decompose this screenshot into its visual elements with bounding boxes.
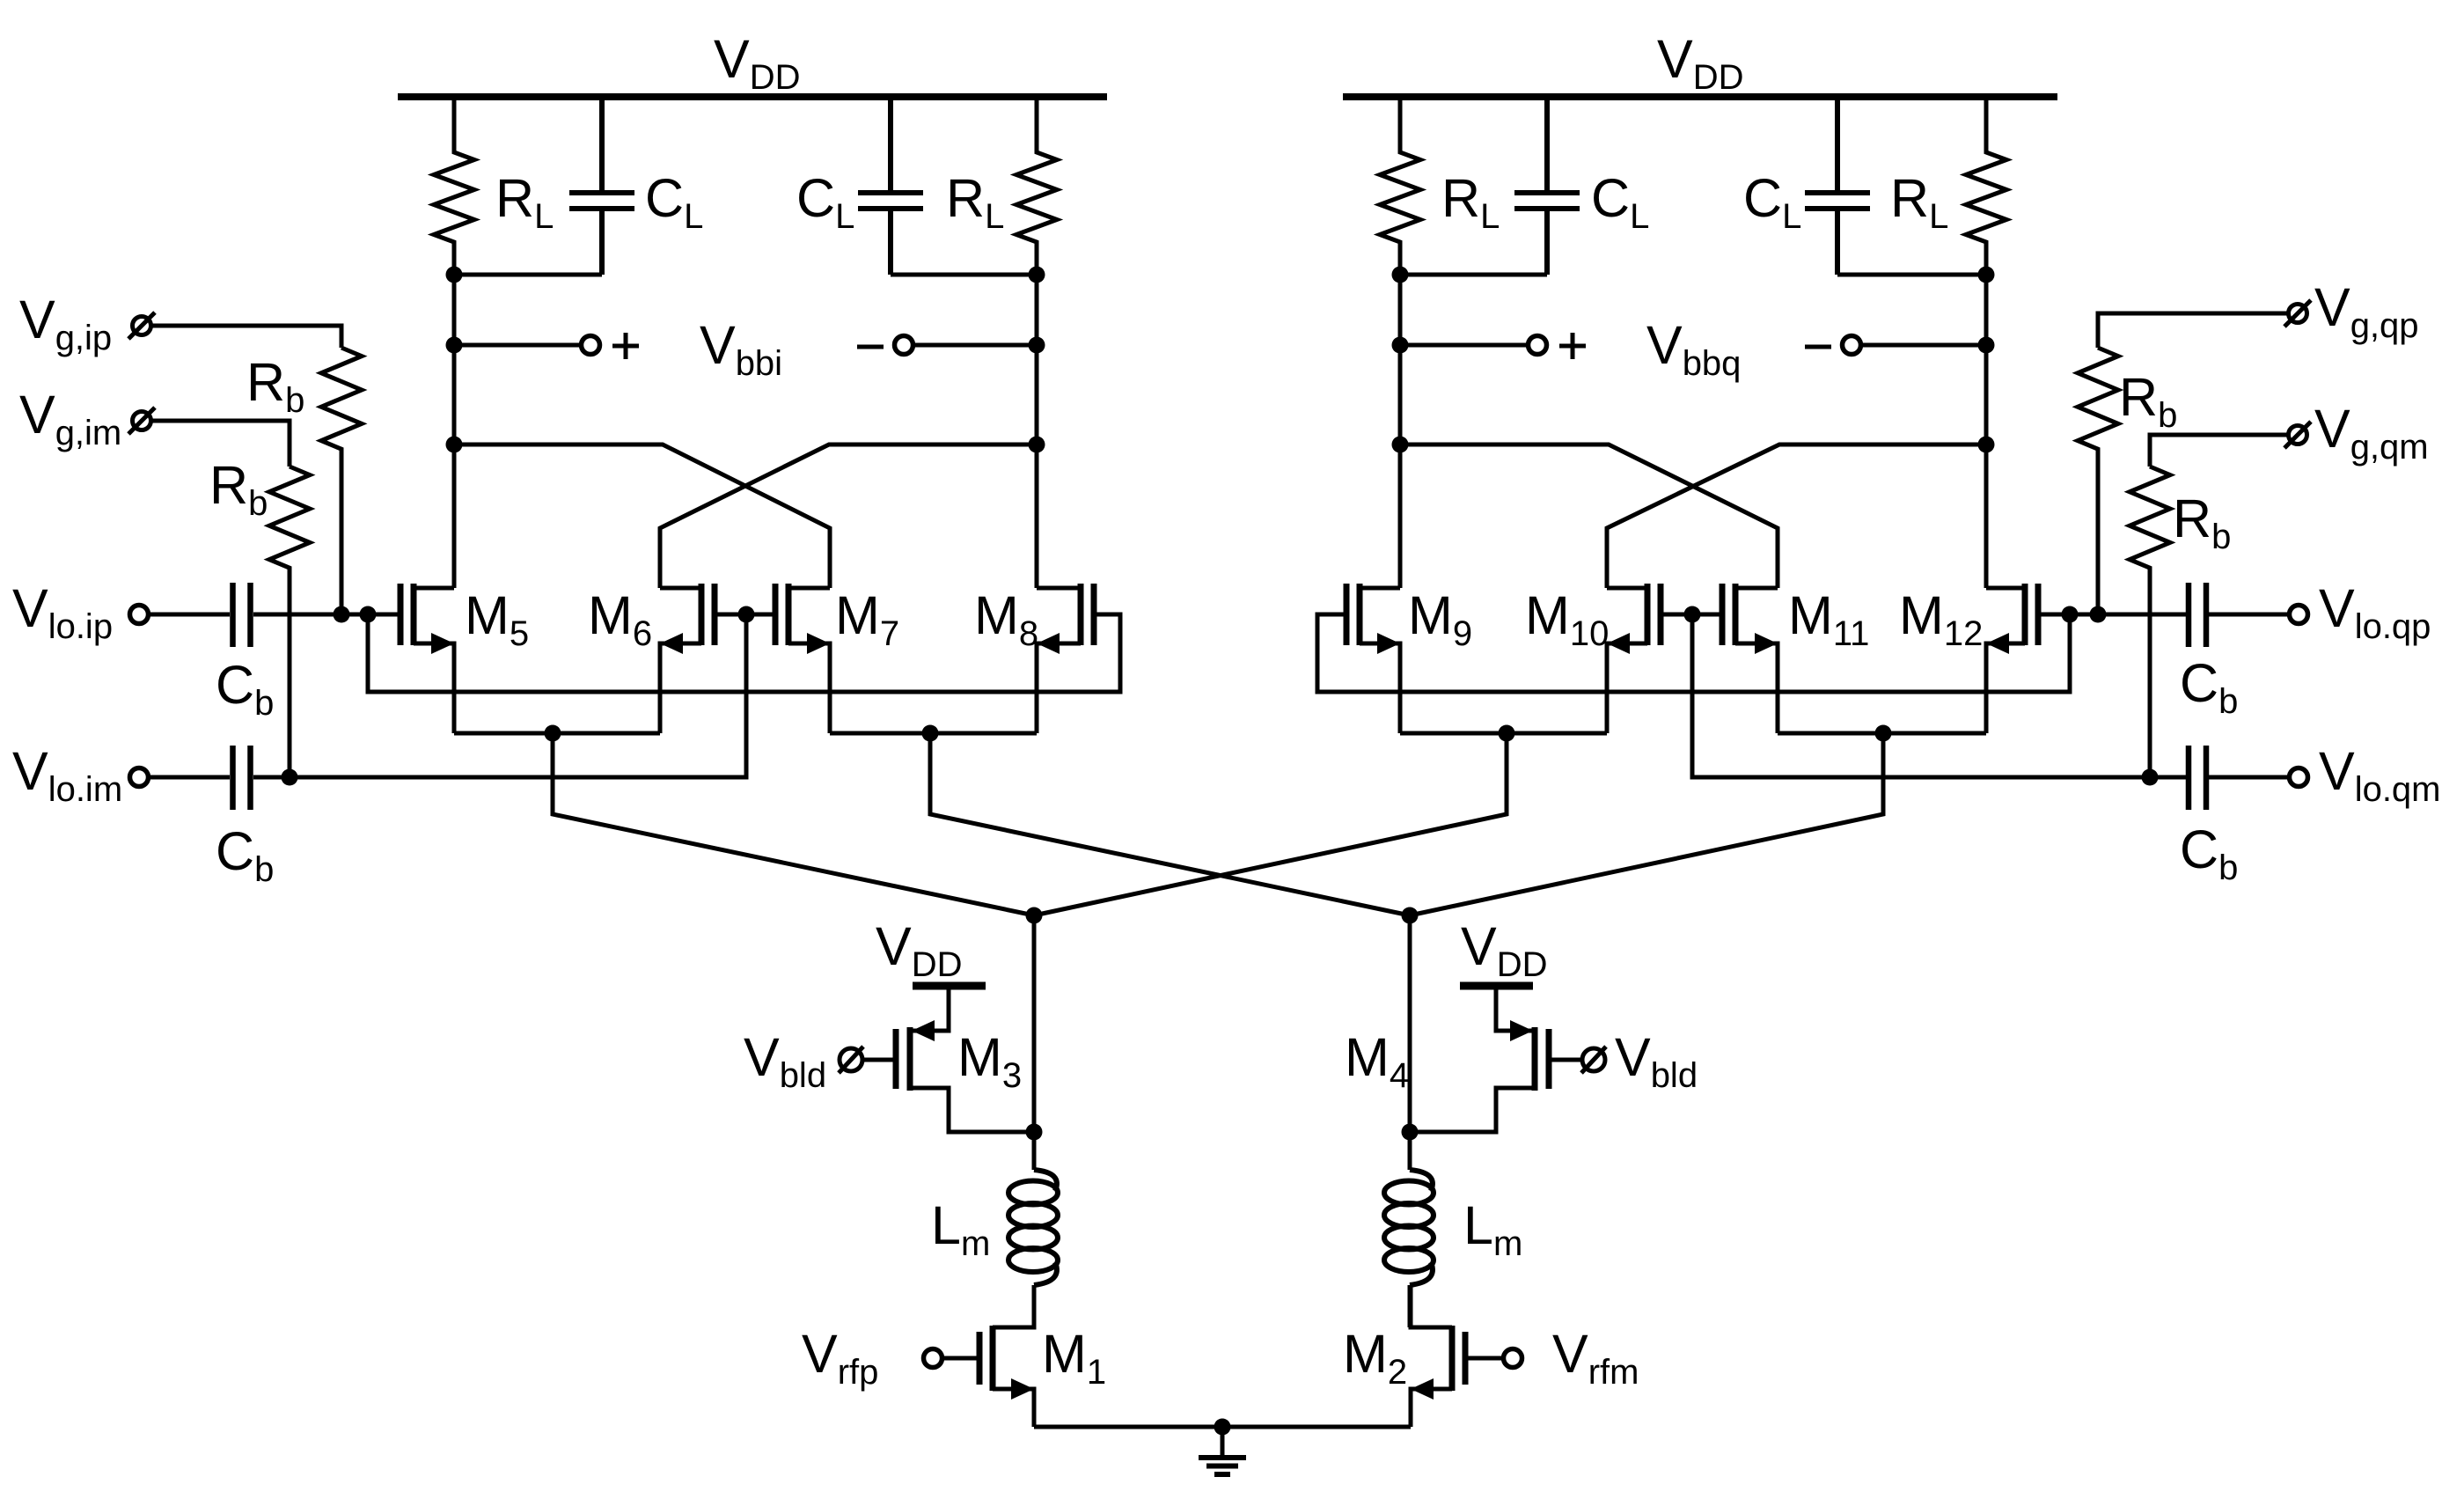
- wire right tail column: [1408, 915, 1412, 1135]
- VDD label M3: [876, 916, 962, 984]
- label Vg,qm: [2314, 399, 2429, 467]
- terminal Vrfp: [924, 1349, 942, 1368]
- node LO+ branch: [360, 606, 377, 623]
- wire RL/CL bottom to I+ output node: [454, 273, 602, 277]
- VDD label Q-section: [1657, 29, 1743, 97]
- terminal Vg,qm: [2289, 426, 2307, 445]
- terminal Vlo.ip: [130, 606, 149, 624]
- wire RL/CL bottom to Q+ output node: [1400, 273, 1547, 277]
- wire Vbbi+ tap: [454, 343, 581, 348]
- wire Vg,qp to Rb: [2098, 313, 2287, 348]
- node M6/M7 gate junction: [738, 606, 755, 623]
- wire M6 gate to M7 gate: [715, 613, 775, 617]
- resistor Rb (lower right): [2130, 467, 2170, 777]
- capacitor Cb (lo.im): [233, 746, 251, 810]
- wire CL/RL bottom to Q- output node: [1837, 273, 1986, 277]
- wire cross-couple Q+ to M11 drain: [1400, 445, 1778, 588]
- wire Q- column: [1984, 275, 1989, 588]
- resistor Rb (lower left): [269, 467, 310, 777]
- node Vbbi- tap: [1029, 337, 1045, 354]
- wire Vlo.qm run from gates: [1692, 614, 2186, 777]
- node M9/M10 sources: [1499, 725, 1515, 742]
- wire I- column: [1035, 275, 1039, 588]
- wire Vg,im to Rb: [152, 421, 290, 467]
- resistor Rb (upper right): [2078, 348, 2118, 614]
- node I+ cross-couple: [446, 437, 463, 453]
- transistor M6: [712, 584, 718, 645]
- node I- cross-couple: [1029, 437, 1045, 453]
- wire Vlo.ip to Cb: [149, 613, 230, 617]
- transistor M8: [1091, 584, 1097, 645]
- terminal Vrfm: [1504, 1349, 1522, 1368]
- resistor RL (left of I-section): [434, 97, 474, 275]
- terminal Vlo.qp: [2290, 606, 2308, 624]
- wire left tail column: [1032, 915, 1037, 1135]
- wire Vbbq- tap: [1861, 343, 1986, 348]
- wire Vbbi- tap: [913, 343, 1037, 348]
- node right tail: [1402, 907, 1419, 924]
- terminal Vbld (left): [840, 1048, 862, 1071]
- terminal Vg,im: [133, 412, 151, 430]
- plus sign Vbbi: [612, 333, 639, 359]
- node M5/M6 sources: [545, 725, 561, 742]
- transistor M1: [977, 1332, 983, 1385]
- transistor M10: [1658, 584, 1664, 645]
- wire M11/M12 source bar: [1778, 731, 1986, 736]
- wire M9/M10 sources to left tail (diagonal): [1034, 733, 1507, 915]
- capacitor Cb (lo.ip): [233, 583, 251, 647]
- terminal Vbbi-: [895, 336, 913, 355]
- ground: [1221, 1427, 1225, 1455]
- node Q- cross-couple: [1978, 437, 1995, 453]
- inductor Lm (left): [1032, 1132, 1037, 1170]
- node Q- output: [1978, 267, 1995, 283]
- terminal Vbbq-: [1843, 336, 1861, 355]
- resistor RL (left of Q-section): [1380, 97, 1420, 275]
- wire M12 gate to Cb: [2038, 613, 2186, 617]
- node Q+ cross-couple: [1392, 437, 1409, 453]
- label Vg,im: [19, 385, 121, 452]
- node M7/M8 sources: [922, 725, 939, 742]
- transistor M12: [2035, 584, 2042, 645]
- node M3 drain / mixer tail: [1026, 1124, 1043, 1141]
- wire common source bottom: [1034, 1425, 1411, 1429]
- wire M10 gate to M11 gate: [1661, 613, 1722, 617]
- capacitor CL (right of Q-section): [1805, 97, 1870, 275]
- label Vbld (right): [1615, 1027, 1698, 1095]
- label Lm (left): [931, 1195, 990, 1263]
- node Vbbq- tap: [1978, 337, 1995, 354]
- VDD rail Q-section: [1343, 93, 2057, 100]
- wire Vg,qm to Rb: [2150, 435, 2287, 467]
- node Rb junction on Vlo.ip: [334, 606, 350, 623]
- wire Q+ column: [1398, 275, 1403, 588]
- label Vlo.qp: [2319, 578, 2431, 646]
- node LO.qp branch: [2062, 606, 2079, 623]
- node Vbbi+ tap: [446, 337, 463, 354]
- wire cross-couple Q- to M10 drain: [1607, 445, 1986, 588]
- transistor M4: [1546, 1029, 1552, 1089]
- wire cross-couple I- to M6 drain: [660, 445, 1037, 588]
- wire Vbbq+ tap: [1400, 343, 1528, 348]
- resistor RL (right of Q-section): [1966, 97, 2006, 275]
- wire Cb to Vlo.qm terminal: [2209, 775, 2289, 780]
- label Vlo.qm: [2319, 741, 2441, 809]
- label Vbbi: [700, 315, 782, 383]
- label Lm (right): [1463, 1195, 1522, 1263]
- wire LO.qp lower run to M9 gate: [1317, 614, 2070, 692]
- capacitor Cb (lo.qp): [2189, 583, 2206, 647]
- terminal Vg,ip: [133, 317, 151, 335]
- transistor M5: [398, 584, 404, 645]
- node M4 drain / mixer tail: [1402, 1124, 1419, 1141]
- VDD label M4: [1461, 916, 1547, 984]
- resistor RL (right of I-section): [1016, 97, 1057, 275]
- terminal Vbbi+: [582, 336, 600, 355]
- terminal Vbbq+: [1529, 336, 1547, 355]
- node left tail: [1026, 907, 1043, 924]
- label Vrfm: [1552, 1324, 1639, 1392]
- node Rb junction on Vlo.qm: [2142, 769, 2159, 786]
- node I+ output: [446, 267, 463, 283]
- transistor M2: [1463, 1332, 1469, 1385]
- wire M11/M12 sources to right tail (diagonal): [1410, 733, 1883, 915]
- wire cross-couple I+ to M7 drain: [454, 445, 830, 588]
- terminal Vlo.im: [130, 768, 149, 787]
- plus sign Vbbq: [1559, 333, 1586, 359]
- terminal Vbld (right): [1582, 1048, 1605, 1071]
- node M11/M12 sources: [1875, 725, 1892, 742]
- terminal Vlo.qm: [2290, 768, 2308, 787]
- minus sign Vbbq: [1805, 345, 1831, 349]
- wire M7/M8 sources to right tail (diagonal): [930, 733, 1410, 915]
- transistor M9: [1344, 584, 1350, 645]
- node Vbbq+ tap: [1392, 337, 1409, 354]
- wire Cb to Vlo.qp terminal: [2209, 613, 2289, 617]
- label Vbbq: [1646, 315, 1741, 383]
- wire CL/RL bottom to I- output node: [891, 273, 1037, 277]
- resistor Rb (upper left): [321, 348, 362, 614]
- VDD label I-section: [714, 29, 800, 97]
- node Rb junction on Vlo.qp: [2090, 606, 2107, 623]
- wire Vrfm to M2 gate: [1465, 1356, 1503, 1361]
- VDD bar M3: [913, 982, 986, 990]
- label Vbld (left): [744, 1027, 826, 1095]
- wire Cb to M5 gate: [253, 613, 398, 617]
- wire Vbld to M3 gate: [862, 1058, 896, 1062]
- wire M5/M6 sources to left tail (diagonal): [553, 733, 1034, 915]
- wire Vg,ip to Rb: [152, 326, 341, 348]
- wire M9/M10 source bar: [1400, 731, 1607, 736]
- wire Vlo.im to Cb: [149, 775, 230, 780]
- node Rb junction on Vlo.im: [282, 769, 298, 786]
- inductor Lm (right): [1408, 1132, 1412, 1170]
- capacitor Cb (lo.qm): [2189, 746, 2206, 810]
- label Vlo.ip: [12, 578, 113, 646]
- wire Vbld to M4 gate: [1549, 1058, 1582, 1062]
- transistor M11: [1720, 584, 1726, 645]
- label Vg,ip: [19, 290, 112, 357]
- node I- output: [1029, 267, 1045, 283]
- label Vg,qp: [2314, 277, 2419, 345]
- terminal Vg,qp: [2289, 305, 2307, 323]
- VDD rail I-section: [398, 93, 1107, 100]
- node Q+ output: [1392, 267, 1409, 283]
- wire M5/M6 source bar: [454, 731, 660, 736]
- transistor M3: [893, 1029, 899, 1089]
- label Vrfp: [802, 1324, 878, 1392]
- wire Vlo.im run to M6/M7 gates: [253, 614, 746, 777]
- label Vlo.im: [12, 741, 122, 809]
- wire I+ column: [452, 275, 457, 588]
- VDD bar M4: [1460, 982, 1533, 990]
- transistor M7: [773, 584, 779, 645]
- capacitor CL (right of I-section): [858, 97, 923, 275]
- capacitor CL (left of I-section): [569, 97, 634, 275]
- wire M7/M8 source bar: [830, 731, 1037, 736]
- capacitor CL (left of Q-section): [1514, 97, 1580, 275]
- node M10/M11 gate junction: [1684, 606, 1701, 623]
- node ground junction: [1214, 1419, 1231, 1436]
- minus sign Vbbi: [857, 345, 884, 349]
- wire Vrfp to M1 gate: [942, 1356, 979, 1361]
- wire LO+ lower run to M8 gate: [368, 614, 1120, 692]
